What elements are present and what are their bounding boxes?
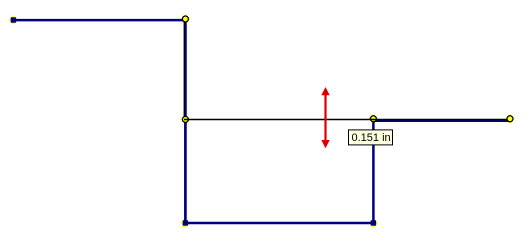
node diamond middle junction bbox=[180, 114, 190, 124]
corner square P3 bbox=[371, 220, 376, 225]
dimension arrow head down bbox=[321, 140, 329, 148]
node diamond right junction bbox=[368, 114, 378, 124]
handle diamond at bottom-right corner bbox=[369, 218, 379, 228]
handle diamond at left endpoint bbox=[9, 15, 19, 25]
dimension arrow head up bbox=[321, 87, 329, 95]
node diamond right endpoint bbox=[505, 114, 515, 124]
node diamond top corner bbox=[180, 14, 190, 24]
tooltip box 0.151 in bbox=[349, 130, 393, 145]
node circle N1 top corner bbox=[182, 16, 188, 22]
node circle N4 right endpoint bbox=[507, 116, 513, 122]
dimension arrow shaft bbox=[324, 93, 326, 141]
thin original-position line horizontal N2 to N4 bbox=[184, 119, 507, 121]
handle diamond at bottom-left corner bbox=[180, 218, 190, 228]
endpoint square P1 bbox=[11, 17, 16, 22]
node circle N3 right junction bbox=[370, 116, 376, 122]
thin original-position line vertical N1 to N2 bbox=[183, 20, 185, 117]
wire W1 top horizontal bbox=[13, 19, 185, 22]
wire W4 right vertical bbox=[372, 120, 375, 224]
wire W3 bottom horizontal bbox=[185, 222, 373, 225]
corner square P2 bbox=[183, 220, 188, 225]
wire W5 right horizontal bbox=[373, 119, 510, 122]
node circle N2 middle junction bbox=[182, 116, 188, 122]
wire W2 left vertical bbox=[184, 19, 187, 223]
svg-text:0.151 in: 0.151 in bbox=[352, 132, 391, 144]
